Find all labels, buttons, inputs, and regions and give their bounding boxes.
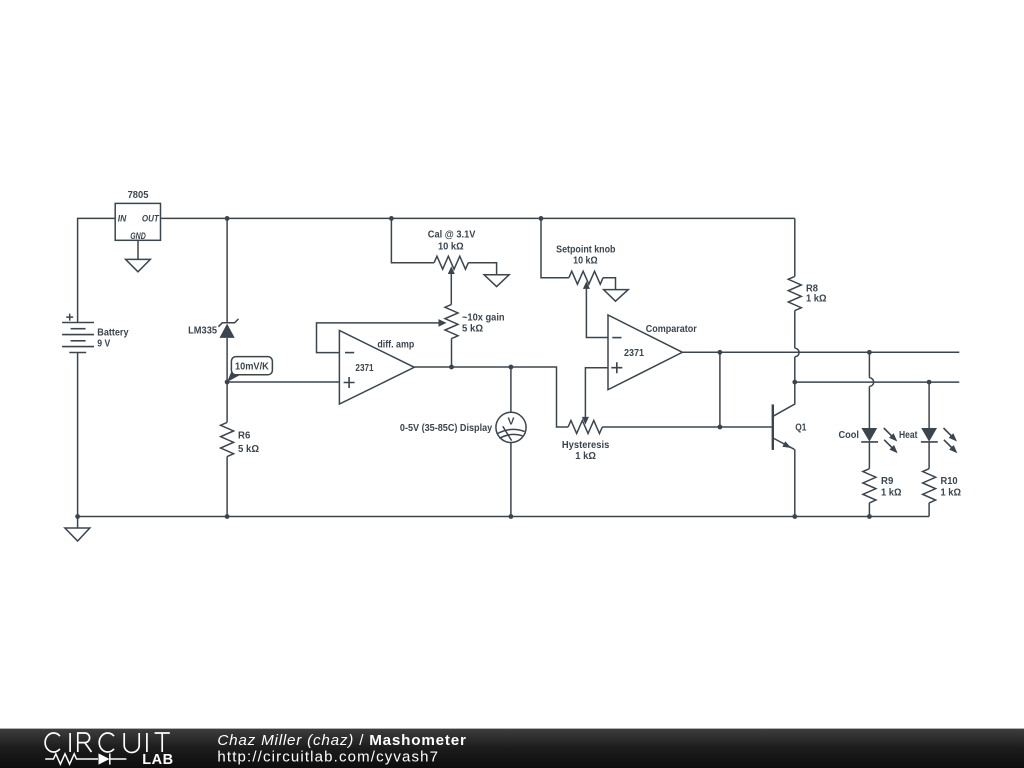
node collector junction — [792, 380, 797, 385]
wiper arrow Hysteresis pot (down) — [582, 417, 589, 425]
resistor R10 — [923, 442, 961, 517]
svg-text:Setpoint knob: Setpoint knob — [556, 243, 615, 255]
wire display branch top — [510, 367, 512, 412]
potentiometer Hysteresis 1k — [562, 421, 610, 463]
node rail display — [509, 514, 514, 519]
wire 7805 GND stub — [137, 240, 139, 259]
annotation 10mV/K — [227, 357, 272, 382]
battery B1 9V — [62, 314, 129, 353]
node +5V to LM335 — [225, 216, 230, 221]
wire +5V rail — [161, 217, 795, 219]
wire ground rail — [78, 516, 930, 518]
wire node A to op-amp + input — [227, 381, 339, 383]
svg-text:V: V — [507, 416, 514, 428]
voltmeter 0-5V display — [400, 412, 526, 442]
node feedback/base junction — [718, 425, 723, 430]
wire Heat branch top — [928, 382, 930, 428]
wire Cal wiper to gain pot — [450, 273, 452, 305]
wire battery + to 7805 IN — [78, 218, 116, 322]
svg-text:Cal @ 3.1V: Cal @ 3.1V — [428, 229, 476, 241]
svg-text:Chaz Miller (chaz) / Mashomete: Chaz Miller (chaz) / Mashometer — [217, 732, 466, 749]
node rail battery — [75, 514, 80, 519]
node rail Q1 emitter — [792, 514, 797, 519]
svg-text:Cool: Cool — [839, 429, 860, 441]
node output to Cool LED — [867, 350, 872, 355]
node gain pot to output — [449, 365, 454, 370]
svg-text:Q1: Q1 — [795, 422, 806, 434]
svg-text:2371: 2371 — [624, 347, 644, 359]
footer bar — [0, 729, 1024, 768]
svg-text:Heat: Heat — [899, 429, 918, 441]
svg-text:10 kΩ: 10 kΩ — [573, 255, 598, 267]
logo CIRCUIT letters — [45, 733, 170, 753]
svg-text:1 kΩ: 1 kΩ — [575, 450, 596, 462]
wire Setpoint wiper to U2 - input — [586, 288, 608, 338]
potentiometer ~10x gain 5k — [445, 304, 505, 367]
svg-text:2371: 2371 — [355, 362, 373, 374]
wire battery - to ground rail — [77, 353, 79, 517]
svg-text:R10: R10 — [941, 475, 958, 487]
svg-text:IN: IN — [118, 214, 128, 225]
svg-text:10 kΩ: 10 kΩ — [438, 240, 464, 252]
wire R8 to collector node — [794, 357, 796, 382]
wiper arrow into gain pot — [439, 319, 447, 327]
LED Heat — [899, 428, 957, 453]
svg-text:LM335: LM335 — [188, 325, 217, 337]
node rail R9 — [867, 514, 872, 519]
ground 7805 — [126, 259, 151, 271]
wire hysteresis right to Q1 base — [602, 426, 772, 428]
ground Cal pot — [484, 275, 509, 287]
svg-text:1 kΩ: 1 kΩ — [941, 487, 962, 499]
node display branch — [509, 365, 514, 370]
node +5V to Setpoint pot — [539, 216, 544, 221]
ground Setpoint pot — [604, 290, 629, 302]
wire hop R8 over U2 output — [795, 348, 799, 357]
svg-text:1 kΩ: 1 kΩ — [806, 293, 827, 305]
op-amp U2 Comparator 2371 — [608, 315, 697, 390]
wire LM335 to node A — [226, 338, 228, 382]
potentiometer Cal @ 3.1V 10k — [391, 218, 496, 274]
svg-text:Comparator: Comparator — [646, 323, 697, 335]
svg-text:1 kΩ: 1 kΩ — [881, 487, 902, 499]
resistor R9 — [863, 442, 902, 517]
transistor Q1 — [773, 382, 807, 516]
logo resistor-diode glyph — [45, 753, 126, 764]
potentiometer Setpoint knob 10k — [541, 218, 616, 289]
svg-text:5 kΩ: 5 kΩ — [462, 322, 483, 334]
LED Cool — [839, 428, 898, 453]
svg-text:5 kΩ: 5 kΩ — [238, 443, 259, 455]
wire hop Cool branch over collector rail — [869, 378, 873, 387]
svg-text:7805: 7805 — [128, 189, 149, 201]
svg-text:0-5V (35-85C) Display: 0-5V (35-85C) Display — [400, 422, 492, 434]
node +5V to Cal pot — [389, 216, 394, 221]
op-amp U1 diff amp 2371 — [339, 331, 414, 405]
node U2 output feedback — [718, 350, 723, 355]
svg-text:9 V: 9 V — [97, 338, 110, 350]
svg-text:LAB: LAB — [142, 752, 173, 768]
node rail R6 — [225, 514, 230, 519]
wire Cool branch top — [868, 352, 870, 378]
node collector rail to Heat LED — [927, 380, 932, 385]
logo diode triangle — [99, 753, 110, 764]
wiper arrow Setpoint pot — [583, 281, 590, 289]
wire +5V to LM335 — [226, 218, 228, 322]
resistor R6 — [221, 382, 259, 517]
zener diode LM335 — [188, 319, 238, 338]
svg-text:OUT: OUT — [142, 214, 160, 225]
wire Cool branch to LED — [868, 386, 870, 428]
wire U2 + input to hysteresis wiper — [585, 368, 608, 418]
wire display branch bottom — [510, 443, 512, 517]
wire U1 feedback from gain pot wiper — [317, 323, 440, 353]
ground bottom-left — [65, 517, 90, 542]
wire U2 output — [682, 351, 959, 353]
voltage regulator 7805 — [115, 189, 160, 242]
wire feedback down to base line — [719, 352, 721, 427]
node A junction LM335/R6/op-amp — [225, 380, 230, 385]
svg-text:R9: R9 — [881, 475, 893, 487]
wiper arrow Cal pot — [448, 266, 455, 274]
wire U1 output rail — [414, 367, 568, 427]
svg-text:10mV/K: 10mV/K — [235, 361, 269, 373]
svg-text:http://circuitlab.com/cyvash7: http://circuitlab.com/cyvash7 — [217, 749, 439, 766]
resistor R8 — [788, 218, 826, 348]
wire collector rail right — [795, 381, 960, 383]
svg-text:diff. amp: diff. amp — [377, 339, 414, 351]
svg-text:R6: R6 — [238, 430, 250, 442]
